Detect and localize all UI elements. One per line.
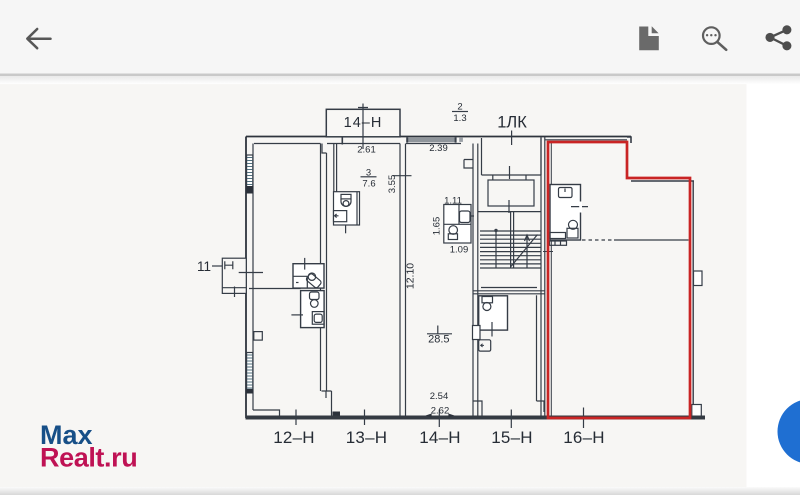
- window hatch lower-left: [247, 353, 253, 390]
- stair bottom wall: [473, 291, 545, 294]
- MaxRealt logo: [40, 420, 137, 473]
- wall 14/stairs: [473, 144, 478, 416]
- window band on top wall: [408, 138, 457, 143]
- svg-text:1.3: 1.3: [453, 113, 466, 124]
- svg-text:16–Н: 16–Н: [563, 428, 604, 447]
- vent shaft wall 13-N: [334, 144, 337, 192]
- photo background: [0, 83, 747, 487]
- dashed partition 16-N: [582, 239, 614, 241]
- 16-N left inner wall line: [550, 142, 552, 416]
- stairwell right wall: [541, 137, 545, 416]
- 15-N bottom notches: [473, 401, 544, 416]
- bathroom 12-N upper box: [293, 258, 324, 289]
- inner top wall segments: [254, 143, 461, 145]
- fraction bar 2/1.3: [452, 111, 468, 113]
- tick 1LK: [511, 131, 513, 146]
- bottom wall ticks: [296, 408, 584, 429]
- right wall bump 16-N: [694, 271, 703, 286]
- bathroom 12-N lower box: [291, 291, 324, 328]
- svg-text:7.6: 7.6: [362, 179, 375, 190]
- svg-text:1ЛК: 1ЛК: [497, 114, 527, 132]
- wall cap below lower hatch: [246, 389, 253, 394]
- wall 12/13: [321, 144, 327, 392]
- svg-text:1.65: 1.65: [432, 217, 443, 236]
- stair bottom landing edge: [481, 287, 537, 289]
- stair vestibule: [482, 138, 542, 175]
- tick through wall 13/14: [393, 175, 412, 177]
- bathroom 13-N upper: [334, 192, 360, 234]
- tick on top wall at 13-N: [341, 137, 343, 145]
- 15-N right inner wall: [536, 295, 538, 401]
- corridor wall 12-N: [249, 288, 301, 290]
- stair treads: [478, 212, 541, 268]
- stair left post: [495, 230, 497, 268]
- outer top wall: [246, 136, 631, 138]
- bathroom 14-N: [444, 205, 474, 244]
- bottom outer wall: [246, 416, 706, 420]
- svg-text:Realt.ru: Realt.ru: [40, 443, 137, 473]
- svg-text:13–Н: 13–Н: [346, 428, 387, 447]
- share icon: [767, 26, 791, 49]
- svg-text:2.54: 2.54: [430, 391, 449, 402]
- svg-text:28.5: 28.5: [428, 334, 449, 346]
- svg-text:2.61: 2.61: [357, 145, 376, 156]
- fraction bar 3/7.6: [361, 176, 377, 178]
- wall 13/14: [400, 144, 406, 416]
- room 14-N label box: [326, 109, 400, 137]
- svg-text:2.39: 2.39: [429, 143, 448, 154]
- magnifier icon: [703, 27, 726, 50]
- 12-N bottom inner wall: [253, 410, 280, 416]
- svg-text:12.10: 12.10: [405, 263, 417, 289]
- stair landing 2: [488, 180, 534, 206]
- document icon: [639, 26, 659, 50]
- bottom gradient strip: [0, 487, 800, 495]
- svg-text:15–Н: 15–Н: [491, 428, 532, 447]
- 16-N black top wall under red: [545, 139, 627, 141]
- tick through left wall at annex: [239, 272, 263, 274]
- black patch bottom of wall 12/13: [333, 412, 341, 419]
- tick on 15/16 wall: [543, 251, 553, 253]
- back arrow icon: [27, 29, 50, 48]
- svg-text:11: 11: [197, 259, 211, 274]
- bathroom 15-N: [479, 296, 508, 337]
- red outline: [548, 142, 690, 418]
- blue action circle: [778, 399, 800, 464]
- left outer wall: [245, 137, 247, 419]
- tick above 28.5: [427, 326, 452, 335]
- svg-text:1.09: 1.09: [450, 245, 469, 256]
- svg-text:3: 3: [366, 168, 371, 179]
- radiator 12-N: [254, 332, 262, 341]
- tick through label box: [358, 104, 368, 150]
- window hatch upper-left: [247, 155, 253, 188]
- svg-text:3.55: 3.55: [387, 175, 398, 194]
- stair arrow: [525, 235, 530, 268]
- svg-text:14–Н: 14–Н: [344, 115, 383, 131]
- toolbar bottom border: [0, 74, 800, 77]
- dimension arrows 2.62: [426, 414, 455, 418]
- step notch 14-N top right: [464, 160, 473, 169]
- left inner wall: [252, 144, 254, 411]
- 16-N step wall black: [631, 180, 694, 182]
- svg-text:12–Н: 12–Н: [273, 428, 314, 447]
- svg-text:14–Н: 14–Н: [419, 428, 460, 447]
- wall box 14/stairs: [473, 326, 481, 340]
- wall 12/13 foot: [322, 391, 332, 416]
- svg-text:1.11: 1.11: [444, 196, 462, 207]
- node 11 dash: [212, 265, 223, 267]
- top toolbar: [0, 0, 800, 74]
- annex box 11: [222, 258, 246, 293]
- sink 15-N: [479, 340, 491, 351]
- top-right wall corner: [627, 137, 631, 143]
- svg-text:2.62: 2.62: [431, 406, 450, 417]
- svg-text:2: 2: [457, 102, 462, 113]
- bottom right outside box: [692, 405, 702, 418]
- stair center rails: [511, 212, 514, 268]
- bathroom 16-N: [550, 185, 589, 246]
- stair diagonal: [511, 235, 538, 267]
- wall cap below hatch: [246, 186, 253, 194]
